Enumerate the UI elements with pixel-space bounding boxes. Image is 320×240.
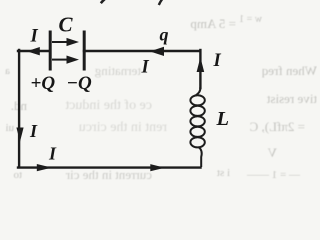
wire top-left segment: [18, 50, 50, 52]
svg-text:I: I: [213, 51, 222, 71]
svg-text:current in the cir: current in the cir: [65, 167, 152, 180]
field arrow upper between plates: [52, 38, 79, 46]
parenthesis tip left (cut formula above): [101, 0, 107, 3]
current arrowhead left wire (points down): [16, 128, 23, 142]
svg-text:a: a: [5, 65, 10, 77]
page background: [0, 0, 317, 180]
svg-text:I: I: [30, 27, 39, 47]
wire bottom: [18, 166, 201, 168]
svg-text:tive resist: tive resist: [266, 91, 317, 106]
inductor L coil: [190, 87, 204, 167]
current arrowhead right wire (points up): [197, 57, 205, 72]
svg-text:L: L: [216, 108, 230, 130]
svg-text:I: I: [29, 121, 38, 141]
svg-text:rent in the circu: rent in the circu: [79, 120, 167, 135]
current arrowhead bottom-left (points right): [37, 164, 52, 171]
svg-text:ce of the induct: ce of the induct: [65, 98, 152, 113]
svg-text:I: I: [48, 144, 57, 164]
svg-text:V: V: [267, 145, 277, 160]
svg-text:When freq: When freq: [261, 63, 317, 78]
svg-text:— = 1 ——: — = 1 ——: [246, 169, 301, 180]
parenthesis tip right (cut formula above): [159, 0, 164, 5]
svg-text:to: to: [13, 169, 22, 180]
capacitor C1 left plate: [49, 31, 52, 71]
svg-text:= 2πfL), C: = 2πfL), C: [250, 119, 305, 134]
svg-text:ui: ui: [5, 122, 14, 134]
bleed-through mirrored page text (decorative): [5, 14, 317, 182]
svg-text:q: q: [160, 25, 169, 45]
wire left vertical: [18, 50, 20, 167]
field arrow lower between plates: [52, 56, 79, 64]
svg-text:w = 1: w = 1: [239, 14, 262, 25]
svg-text:ternating: ternating: [94, 63, 141, 78]
svg-text:= 5 Amp: = 5 Amp: [190, 16, 236, 31]
svg-text:−Q: −Q: [67, 73, 93, 94]
svg-text:i st: i st: [217, 167, 230, 179]
svg-text:I: I: [141, 58, 150, 78]
svg-text:C: C: [59, 13, 74, 37]
wire right vertical upper: [199, 50, 201, 88]
current arrowhead top-left (points left): [27, 47, 40, 55]
wire top-right segment: [84, 50, 200, 52]
current arrowhead bottom-right (points right): [150, 164, 165, 171]
svg-text:+Q: +Q: [31, 73, 56, 94]
capacitor C1 right plate: [83, 31, 86, 71]
current arrowhead top-right (points left): [150, 47, 164, 56]
